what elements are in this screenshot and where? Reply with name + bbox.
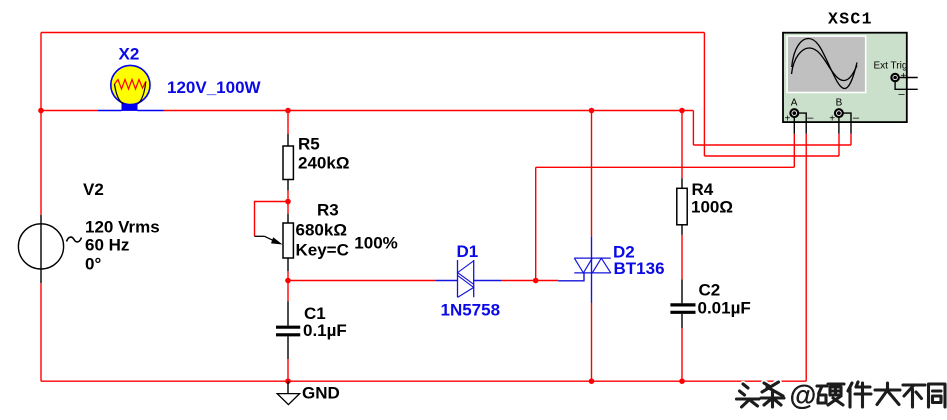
- wire B- stub black: [843, 113, 851, 134]
- svg-text:240kΩ: 240kΩ: [298, 154, 349, 173]
- wire right drop from top sense to B+ row: [703, 33, 705, 157]
- svg-text:120 Vrms: 120 Vrms: [85, 217, 160, 236]
- wire A- vertical to ground rail: [805, 134, 807, 382]
- wire potentiometer wiper loop: [255, 202, 289, 237]
- label terminal A minus: [807, 112, 814, 124]
- triac D2: [558, 236, 611, 303]
- terminal B: [835, 109, 843, 117]
- wire B+ horizontal run: [704, 155, 839, 157]
- label terminal B plus: [829, 113, 835, 124]
- wire R4 branch red segments: [681, 111, 683, 382]
- terminal Ext Trig: [891, 74, 898, 81]
- svg-text:+: +: [829, 113, 835, 124]
- svg-text:D1: D1: [457, 242, 479, 261]
- label R5: [298, 134, 320, 153]
- label XSC1: [828, 10, 873, 29]
- svg-text:B: B: [836, 98, 843, 109]
- label 120 Vrms: [85, 217, 160, 236]
- label terminal A: [791, 98, 798, 109]
- resistor R4: [677, 178, 687, 235]
- label 100%: [354, 234, 397, 253]
- label R4: [692, 180, 714, 199]
- svg-text:Key=C: Key=C: [296, 241, 349, 260]
- label C1: [304, 304, 326, 323]
- source V2: [18, 215, 81, 283]
- wire B+ stub black: [838, 117, 840, 134]
- label 100 ohm: [691, 198, 733, 217]
- node junction ground C1: [285, 378, 291, 384]
- svg-text:–: –: [807, 112, 814, 124]
- svg-text:0.1µF: 0.1µF: [303, 321, 347, 340]
- wire B- stub riser: [850, 134, 852, 145]
- label BT136: [614, 259, 665, 278]
- watermark toutiao text: [737, 382, 946, 407]
- svg-text:@: @: [790, 380, 817, 411]
- node junction R4 top: [679, 108, 685, 114]
- label 60 Hz: [85, 235, 129, 254]
- svg-text:0.01µF: 0.01µF: [698, 298, 751, 317]
- label Ext Trig plus: [901, 71, 907, 82]
- node junction triac top: [589, 108, 595, 114]
- terminal A: [790, 109, 798, 117]
- svg-text:+: +: [785, 113, 791, 124]
- svg-text:–: –: [853, 112, 860, 124]
- svg-text:C2: C2: [699, 281, 721, 300]
- label Key=C: [296, 241, 349, 260]
- label X2: [119, 45, 140, 64]
- svg-text:0°: 0°: [85, 255, 101, 274]
- svg-text:Ext Trig: Ext Trig: [874, 61, 908, 72]
- label D2: [613, 243, 635, 262]
- node junction pot bottom gate: [285, 278, 291, 284]
- svg-text:680kΩ: 680kΩ: [296, 221, 347, 240]
- capacitor C2: [670, 279, 695, 328]
- node junction ground C2: [679, 378, 685, 384]
- svg-text:XSC1: XSC1: [828, 10, 873, 29]
- oscilloscope XSC1: [783, 33, 907, 122]
- svg-text:C1: C1: [304, 304, 326, 323]
- svg-text:60 Hz: 60 Hz: [85, 235, 129, 254]
- wire B- horizontal run: [693, 144, 851, 146]
- label 680k: [296, 221, 347, 240]
- svg-text:100%: 100%: [354, 234, 397, 253]
- ground: [277, 381, 299, 404]
- resistor R3 potentiometer: [255, 214, 294, 271]
- label 1N5758: [441, 300, 501, 319]
- label V2: [83, 180, 104, 199]
- wire Ext Trig stubs: [895, 78, 918, 90]
- watermark at sign: [790, 380, 817, 411]
- wire bottom ground rail: [41, 380, 806, 382]
- capacitor C1: [276, 301, 300, 359]
- svg-text:–: –: [899, 89, 906, 101]
- label 0 deg: [85, 255, 101, 274]
- label 240k: [298, 154, 349, 173]
- svg-text:GND: GND: [302, 383, 340, 402]
- wire A+ stub riser: [793, 134, 795, 168]
- wire top sense line: [41, 32, 704, 34]
- svg-text:R5: R5: [298, 134, 320, 153]
- label terminal B minus: [853, 112, 860, 124]
- node junction left rail: [38, 108, 44, 114]
- wire main top rail: [41, 110, 693, 112]
- label 0.1uF: [303, 321, 347, 340]
- svg-text:X2: X2: [119, 45, 140, 64]
- node junction pot top: [285, 199, 291, 205]
- svg-text:120V_100W: 120V_100W: [167, 78, 262, 97]
- wire B+ stub riser: [838, 134, 840, 156]
- label Ext Trig minus: [899, 89, 906, 101]
- wire A- stub black: [798, 113, 806, 134]
- resistor R5: [283, 134, 293, 190]
- wire A+ stub black: [793, 117, 795, 134]
- label terminal A plus: [785, 113, 791, 124]
- wire A+ horizontal run: [536, 166, 795, 168]
- wire triac branch red segments: [591, 111, 593, 382]
- lamp X2: [98, 65, 164, 111]
- label C2: [699, 281, 721, 300]
- svg-text:A: A: [791, 98, 798, 109]
- wire B- drop from rail: [692, 111, 694, 146]
- node junction diac-triac gate: [533, 278, 539, 284]
- svg-text:V2: V2: [83, 180, 104, 199]
- wire A+ sense drop to gate node: [535, 167, 537, 280]
- svg-text:BT136: BT136: [614, 259, 665, 278]
- diac D1: [436, 260, 502, 297]
- svg-text:R3: R3: [317, 201, 339, 220]
- label R3: [317, 201, 339, 220]
- label 120V_100W: [167, 78, 262, 97]
- wire R5 branch segments: [287, 111, 289, 382]
- label GND: [302, 383, 340, 402]
- svg-text:+: +: [901, 71, 907, 82]
- node junction ground triac: [589, 378, 595, 384]
- svg-text:1N5758: 1N5758: [441, 300, 501, 319]
- wire left vertical branch: [40, 33, 42, 382]
- wire gate line red segments: [288, 280, 558, 282]
- label D1: [457, 242, 479, 261]
- svg-text:100Ω: 100Ω: [691, 198, 733, 217]
- node junction R5 top: [285, 108, 291, 114]
- svg-text:R4: R4: [692, 180, 714, 199]
- label 0.01uF: [698, 298, 751, 317]
- label terminal B: [836, 98, 843, 109]
- label Ext Trig: [874, 61, 908, 72]
